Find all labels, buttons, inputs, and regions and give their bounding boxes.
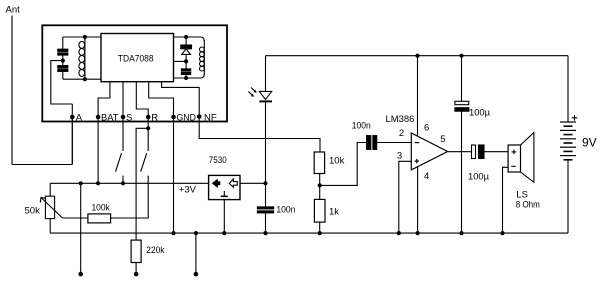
capacitor C5 100n coupling — [352, 120, 377, 149]
node pin GND — [171, 113, 196, 124]
wire pin NF to 10k — [199, 117, 320, 153]
wire R branch jog — [136, 128, 148, 240]
wire 10k to junction — [319, 174, 321, 200]
wire middle terminal tap — [195, 233, 197, 272]
svg-text:LM386: LM386 — [386, 114, 415, 125]
module box — [42, 25, 227, 121]
node varactor branch top — [184, 35, 188, 39]
resistor R4 10k — [314, 152, 344, 174]
op-amp U3 LM386 — [386, 114, 448, 170]
wire TDA7088 to S pin — [122, 82, 124, 117]
capacitor C2 (left tank lower) — [58, 61, 68, 80]
node rail to lower tap — [79, 181, 83, 185]
svg-text:5: 5 — [440, 134, 445, 145]
regulator U2 7530 — [209, 155, 240, 200]
svg-text:100n: 100n — [352, 120, 371, 131]
svg-text:S: S — [126, 113, 132, 124]
switch S2 lever — [141, 153, 147, 172]
svg-text:R: R — [151, 113, 158, 124]
node C1-C2 junction — [61, 59, 65, 63]
wire LED branch upper — [265, 56, 267, 92]
svg-text:9V: 9V — [582, 136, 597, 150]
node pin6 on supply rail — [415, 54, 419, 58]
svg-text:A: A — [76, 113, 83, 124]
inductor L1 (left coil) — [79, 37, 85, 79]
node pin R — [146, 113, 158, 124]
svg-text:BAT: BAT — [101, 113, 119, 124]
wire pin S to switch — [122, 117, 124, 151]
wire LED to +3V node — [265, 102, 267, 183]
wire pin BAT to +3V rail — [97, 117, 99, 183]
node pin4 on ground rail — [416, 231, 420, 235]
wire C1-C2 tap to pin A — [51, 61, 73, 104]
potentiometer P1 50k — [25, 183, 63, 233]
svg-text:50k: 50k — [25, 206, 41, 217]
switch S1 lever — [116, 153, 122, 172]
speaker LS — [508, 133, 540, 211]
wire right tank top — [174, 37, 205, 41]
wire top supply rail — [266, 55, 569, 57]
node S1 on rail — [121, 181, 125, 185]
resistor R3 220k — [131, 240, 165, 262]
node 7530 on ground rail — [222, 231, 226, 235]
svg-text:7530: 7530 — [209, 155, 227, 166]
svg-text:TDA7088: TDA7088 — [118, 53, 154, 64]
capacitor C4 100n decoupling — [257, 183, 295, 233]
wire TDA7088 to NF pin — [162, 82, 200, 117]
svg-text:100µ: 100µ — [468, 171, 490, 182]
node pin3 on ground rail — [397, 231, 401, 235]
label pin 6 — [424, 122, 429, 133]
node terminal dot right — [194, 272, 199, 277]
node C6 on ground rail — [459, 231, 463, 235]
wire 100k to switch S2 — [111, 217, 149, 219]
capacitor C6 100u bypass — [455, 56, 491, 233]
node pin NF — [197, 113, 217, 124]
wire rail tap down — [80, 183, 82, 272]
wire wiper to 100k — [63, 217, 88, 219]
label pin 3 — [397, 151, 402, 162]
node speaker on ground rail — [500, 231, 504, 235]
svg-text:220k: 220k — [146, 245, 164, 256]
node GND on ground rail — [171, 231, 175, 235]
wire 220k bottom — [135, 263, 137, 273]
inductor L2 (right coil) — [200, 40, 205, 75]
node tap on ground rail — [194, 231, 198, 235]
node pin A — [70, 113, 83, 124]
svg-text:Ant: Ant — [6, 5, 21, 16]
wire TDA7088 to GND pin — [149, 82, 174, 117]
svg-text:10k: 10k — [329, 155, 345, 166]
wire 7530 output — [240, 182, 266, 184]
svg-text:4: 4 — [424, 171, 429, 182]
wire +3V rail — [50, 182, 208, 184]
node L1 bottom — [83, 77, 87, 81]
node 1k on ground rail — [318, 231, 322, 235]
wire switch S2 bottom — [147, 176, 149, 219]
wire pin A below box — [71, 117, 73, 165]
node varactor branch bottom — [184, 76, 188, 80]
antenna label Ant — [6, 5, 21, 16]
node L1 top — [83, 35, 87, 39]
battery B1 9V — [560, 56, 597, 233]
capacitor C3 (right tank) — [181, 61, 190, 78]
label pin 5 — [440, 134, 445, 145]
wire 7530 ground pin — [223, 200, 225, 234]
node terminal dot left — [78, 272, 83, 277]
capacitor C1 (left tank upper) — [58, 37, 68, 61]
node terminal dot middle — [134, 272, 139, 277]
node R branch — [146, 126, 150, 130]
svg-text:2: 2 — [399, 128, 404, 139]
wire pin A riser — [71, 104, 73, 165]
svg-text:GND: GND — [177, 113, 197, 124]
wire speaker minus to ground — [503, 167, 509, 233]
node pin BAT — [96, 113, 119, 124]
wire C7 to speaker — [484, 151, 508, 153]
svg-text:3: 3 — [397, 151, 402, 162]
wire 1k to ground rail — [319, 222, 321, 233]
label pin 2 — [399, 128, 404, 139]
wire ground rail — [50, 232, 568, 234]
svg-text:1k: 1k — [329, 207, 339, 218]
label pin 4 — [424, 171, 429, 182]
LED D2 — [248, 88, 272, 102]
svg-text:100µ: 100µ — [469, 107, 491, 118]
wire pin 4 to ground — [417, 167, 419, 233]
node C6 on supply rail — [459, 54, 463, 58]
wire right tank bottom — [174, 74, 205, 78]
wire pin 3 — [399, 161, 412, 233]
node 10k-1k junction — [318, 183, 322, 187]
wire switch S1 bottom — [122, 176, 124, 184]
wire antenna vertical — [11, 16, 13, 165]
wire left tank top — [63, 36, 101, 38]
wire pin R down — [147, 117, 149, 151]
svg-text:NF: NF — [204, 113, 217, 124]
capacitor C7 100u output — [468, 145, 490, 182]
wire TDA7088 to R pin — [136, 82, 148, 117]
node BAT on rail — [96, 181, 100, 185]
svg-text:100n: 100n — [276, 205, 295, 216]
wire left tank bottom — [63, 78, 101, 80]
svg-text:+3V: +3V — [179, 185, 197, 196]
node D1-C3 junction — [184, 59, 188, 63]
wire pin GND to ground rail — [173, 117, 175, 233]
wire pin 6 to supply — [417, 56, 419, 136]
wire TDA7088 to BAT pin — [98, 82, 110, 117]
wire pin 5 output — [448, 151, 472, 153]
wire C5 to pin 2 — [377, 142, 412, 144]
op-amp U1 TDA7088 box — [101, 34, 174, 82]
wire antenna horizontal to pin A — [12, 164, 72, 166]
wire tank tap to TDA7088 — [174, 60, 187, 62]
resistor R2 100k — [88, 202, 111, 223]
svg-text:100k: 100k — [92, 202, 110, 213]
svg-text:8 Ohm: 8 Ohm — [516, 199, 540, 210]
varactor diode D1 — [181, 37, 192, 61]
node C4 on ground rail — [263, 231, 267, 235]
wire junction to C5 — [320, 143, 367, 186]
label +3V — [179, 185, 197, 196]
node pin S — [121, 113, 133, 124]
svg-text:6: 6 — [424, 122, 429, 133]
node LED branch on +3V — [263, 181, 267, 185]
resistor R5 1k — [314, 199, 339, 222]
